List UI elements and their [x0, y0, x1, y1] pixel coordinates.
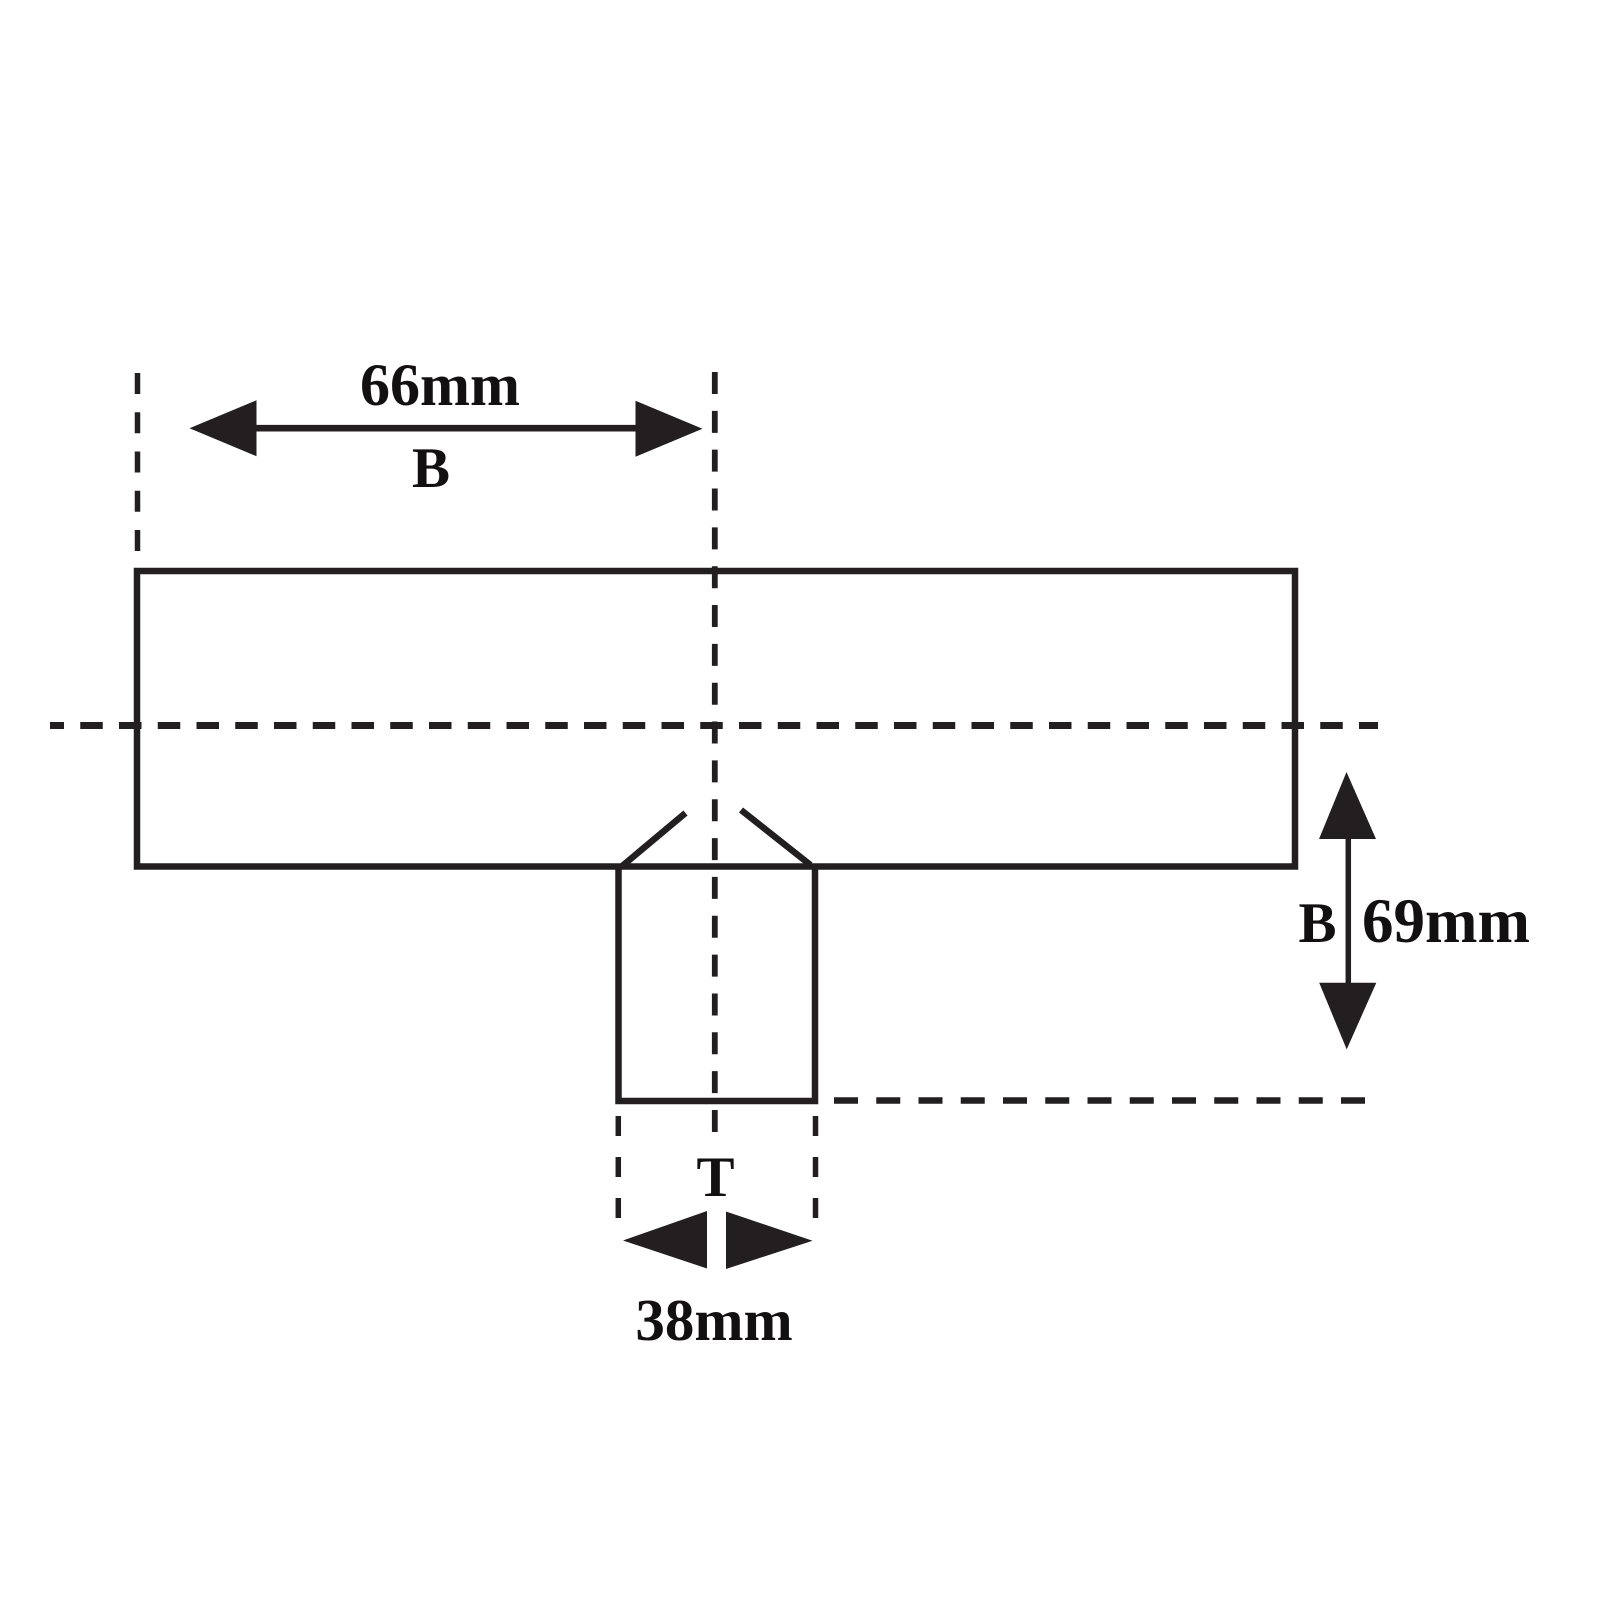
- 66mm dimension arrow tail: [250, 425, 642, 432]
- bar rectangle: [137, 571, 1295, 867]
- stem bottom dashed left: [616, 1116, 622, 1218]
- horizontal dashed line at stem bottom level: [834, 1097, 1365, 1104]
- svg-text:T: T: [696, 1146, 734, 1209]
- svg-text:38mm: 38mm: [635, 1287, 792, 1353]
- 69mm top arrowhead: [1319, 772, 1376, 839]
- svg-text:B: B: [1298, 892, 1336, 955]
- 66mm right arrowhead: [636, 401, 703, 457]
- left vertical dashed line: [135, 373, 141, 551]
- svg-text:66mm: 66mm: [360, 352, 520, 418]
- 38mm left arrowhead triangle: [623, 1211, 707, 1269]
- stem bottom dashed right: [813, 1116, 819, 1218]
- 38mm right arrowhead triangle: [726, 1212, 813, 1270]
- stem outline: [619, 864, 816, 1101]
- svg-text:B: B: [412, 437, 450, 500]
- 69mm dimension arrow tail: [1346, 832, 1352, 990]
- vertical centerline dashed: [712, 372, 718, 1133]
- 66mm left arrowhead: [190, 400, 257, 456]
- chevron right line: [741, 810, 811, 865]
- horizontal centerline dashed: [50, 722, 1378, 729]
- svg-text:69mm: 69mm: [1362, 886, 1530, 956]
- 69mm bottom arrowhead: [1319, 983, 1376, 1050]
- chevron left line: [621, 813, 686, 867]
